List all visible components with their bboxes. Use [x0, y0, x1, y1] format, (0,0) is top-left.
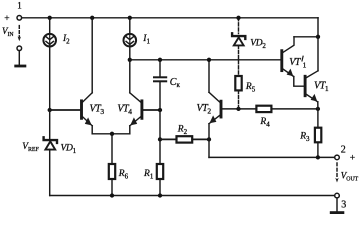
wire Ck top — [159, 60, 161, 76]
wire R2 right — [192, 138, 209, 140]
wire R3 bottom — [317, 142, 319, 157]
wire VT2 emitter down — [208, 124, 210, 140]
wire I1 bottom — [129, 47, 131, 60]
transistor VT3 — [82, 93, 93, 126]
resistor R2 — [177, 136, 193, 142]
svg-text:2: 2 — [341, 144, 346, 155]
node O (top rail / VD2) — [236, 16, 240, 20]
wire VT1 collector — [317, 37, 319, 71]
wire common emitters — [92, 133, 130, 135]
node Q (collectors / top rail drop) — [316, 35, 320, 39]
Vout dashed arrow — [336, 163, 338, 178]
terminal 3 — [335, 193, 340, 198]
wire VT2 collector — [208, 60, 210, 93]
wire R5 dashed bottom — [238, 90, 240, 109]
Vin dashed arrow — [18, 26, 20, 37]
node B (VT3 base / VD1) — [48, 108, 52, 112]
wire to R6 — [111, 134, 113, 164]
wire VT3 emitter down — [91, 126, 93, 134]
node E (R6 / bottom rail) — [110, 193, 114, 197]
node L (R2 / VT2 emitter / feedback) — [207, 137, 211, 141]
wire mid rail — [130, 59, 281, 61]
wire VT2 base — [222, 108, 238, 110]
svg-text:3: 3 — [341, 199, 346, 210]
node G (I1 / mid rail / VT4 collector) — [128, 58, 132, 62]
node J (R2 left) — [158, 137, 162, 141]
capacitor Ck — [154, 77, 166, 81]
wire VD2 dashed bottom — [238, 46, 240, 77]
wire I2 to VT3 base node — [49, 47, 51, 111]
wire bottom rail — [50, 195, 335, 197]
wire Ck bottom to R1 — [159, 82, 161, 164]
svg-text:+: + — [4, 14, 9, 24]
wire VT3 collector drop — [91, 18, 93, 93]
wire VT4 collector — [129, 60, 131, 93]
wire to input ground — [18, 51, 20, 65]
wire R1 to bottom rail — [159, 179, 161, 196]
resistor R4 — [256, 106, 271, 112]
node P (VT1 emitter / R4 / R3) — [316, 107, 320, 111]
wire VT4 base — [143, 109, 160, 111]
input lower terminal — [17, 46, 22, 51]
wire feedback down — [208, 139, 210, 157]
terminal 1 — [17, 15, 22, 20]
node D (diff pair emitters) — [110, 132, 114, 136]
wire feedback to output — [209, 156, 335, 158]
resistor R1 — [157, 164, 163, 179]
wire R4 right — [271, 108, 318, 110]
wire R3 top — [317, 109, 319, 128]
wire R4 left — [239, 108, 257, 110]
wire VT3 base — [50, 109, 80, 111]
svg-text:1: 1 — [17, 1, 22, 11]
node A (top rail / I2 branch) — [48, 16, 52, 20]
resistor R3 — [315, 128, 321, 143]
wire VD1 to bottom rail — [49, 149, 51, 195]
transistor VT1 — [305, 71, 318, 102]
zener diode VD2 — [232, 33, 245, 45]
transistor VT'1 — [282, 37, 294, 77]
node R (R3 / output line) — [316, 155, 320, 159]
transistor VT2 — [209, 92, 221, 123]
transistor VT4 — [130, 93, 142, 126]
wire VD2 dashed top — [238, 18, 240, 34]
ground (input) — [16, 65, 25, 68]
node C (top rail / VT3 collector) — [90, 16, 94, 20]
wire R2 left — [160, 138, 177, 140]
node M (mid rail / VT2 collector) — [207, 58, 211, 62]
wire VD1 top — [49, 110, 51, 139]
wire R6 to bottom rail — [111, 179, 113, 196]
terminal 2 — [335, 155, 340, 160]
node K (R1 / bottom rail) — [158, 193, 162, 197]
svg-text:+: + — [350, 153, 355, 163]
wire VT1 emitter down — [317, 102, 319, 109]
wire VT4 emitter down — [129, 126, 131, 134]
wire top rail — [22, 17, 318, 19]
node H (VT4 base / Ck line) — [158, 108, 162, 112]
resistor R5 — [235, 76, 241, 90]
node I (mid rail / Ck) — [158, 58, 162, 62]
node N (VT2 base / R5 / R4) — [236, 107, 240, 111]
wire VT'1 emitter to VT1 base — [294, 77, 304, 87]
wire VT'1 collector — [294, 36, 318, 38]
zener diode VD1 — [44, 137, 57, 149]
current source I2 — [43, 34, 56, 47]
ground (output) — [331, 211, 343, 214]
node F (top rail / I1) — [128, 16, 132, 20]
current source I1 — [124, 34, 137, 47]
resistor R6 — [109, 164, 115, 179]
wire terminal 3 to ground — [336, 198, 338, 211]
wire I2 top — [49, 18, 51, 34]
wire I1 top — [129, 18, 131, 34]
wire top-right drop to Darlington collector node — [317, 18, 319, 37]
